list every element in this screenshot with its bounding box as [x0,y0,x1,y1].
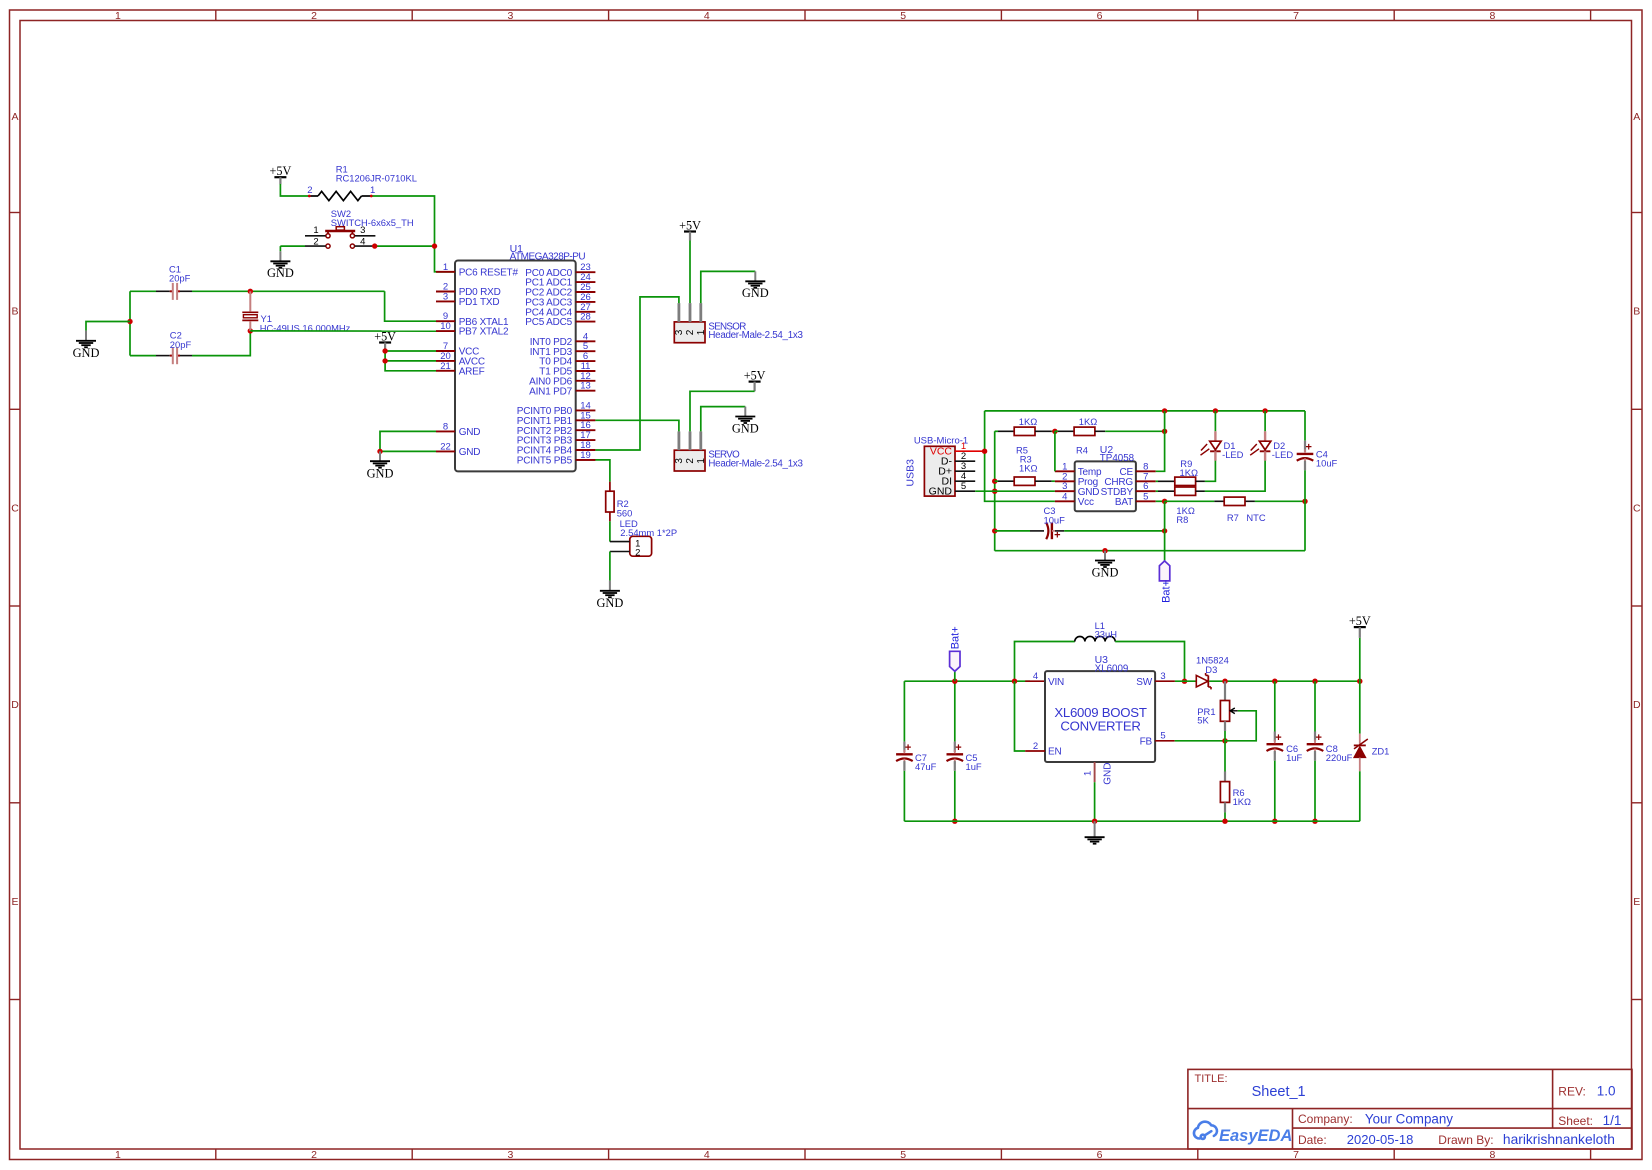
svg-text:USB3: USB3 [905,459,917,487]
svg-text:5K: 5K [1197,715,1209,726]
svg-text:5: 5 [961,481,966,492]
svg-text:10: 10 [440,321,451,332]
svg-text:VIN: VIN [1048,677,1064,688]
svg-text:AIN1 PD7: AIN1 PD7 [529,386,573,397]
svg-text:+5V: +5V [1349,614,1371,628]
svg-text:5: 5 [1143,491,1148,502]
svg-text:PB7 XTAL2: PB7 XTAL2 [459,327,509,338]
svg-text:Sheet_1: Sheet_1 [1252,1084,1306,1100]
svg-text:GND: GND [459,427,481,438]
svg-text:EasyEDA: EasyEDA [1219,1127,1292,1145]
svg-text:PC5 ADC5: PC5 ADC5 [525,317,572,328]
svg-text:2: 2 [685,458,696,464]
svg-text:47uF: 47uF [915,761,937,772]
svg-text:1KΩ: 1KΩ [1079,416,1097,427]
svg-text:B: B [1633,306,1640,318]
svg-text:Company:: Company: [1298,1112,1353,1126]
svg-text:1: 1 [1083,771,1094,776]
svg-text:4: 4 [1062,491,1067,502]
svg-text:A: A [1633,111,1640,123]
svg-text:R7: R7 [1227,512,1239,523]
svg-text:21: 21 [440,361,451,372]
svg-text:A: A [11,111,18,123]
svg-text:1: 1 [696,329,707,335]
svg-text:1KΩ: 1KΩ [1019,416,1037,427]
svg-text:3: 3 [360,225,365,236]
svg-text:3: 3 [507,10,513,22]
svg-text:4: 4 [360,236,365,247]
svg-text:NTC: NTC [1246,512,1265,523]
svg-text:2020-05-18: 2020-05-18 [1347,1132,1414,1147]
svg-text:RC1206JR-0710KL: RC1206JR-0710KL [336,173,417,184]
svg-text:4: 4 [1033,671,1038,682]
svg-text:3: 3 [674,329,685,335]
svg-text:2: 2 [1033,741,1038,752]
svg-text:3: 3 [1160,671,1165,682]
svg-text:R8: R8 [1176,514,1188,525]
svg-text:harikrishnankeloth: harikrishnankeloth [1503,1132,1615,1147]
svg-text:2: 2 [635,548,640,559]
svg-text:22: 22 [440,441,451,452]
svg-text:D: D [1633,699,1641,711]
svg-text:2: 2 [313,236,318,247]
svg-text:Drawn By:: Drawn By: [1438,1133,1493,1147]
svg-text:1.0: 1.0 [1597,1084,1616,1099]
svg-text:3: 3 [443,291,448,302]
svg-text:+: + [1275,732,1281,744]
svg-text:GND: GND [596,596,623,610]
svg-text:-LED: -LED [1222,449,1244,460]
svg-text:1KΩ: 1KΩ [1019,463,1037,474]
svg-text:Vcc: Vcc [1078,497,1094,508]
svg-text:GND: GND [267,266,294,280]
svg-text:GND: GND [367,466,394,480]
svg-text:GND: GND [73,346,100,360]
svg-text:GND: GND [742,286,769,300]
svg-text:D3: D3 [1205,664,1217,675]
svg-text:20pF: 20pF [169,273,191,284]
svg-text:4: 4 [704,1149,710,1161]
svg-text:2: 2 [685,329,696,335]
svg-text:ATMEGA328P-PU: ATMEGA328P-PU [510,252,586,263]
svg-text:E: E [11,896,18,908]
svg-text:TITLE:: TITLE: [1195,1073,1228,1085]
svg-text:3: 3 [674,458,685,464]
svg-text:10uF: 10uF [1316,458,1338,469]
svg-text:AREF: AREF [459,366,485,377]
svg-text:REV:: REV: [1558,1085,1586,1099]
svg-text:6: 6 [1097,10,1103,22]
svg-text:1KΩ: 1KΩ [1180,467,1198,478]
svg-text:2: 2 [311,10,317,22]
svg-text:2: 2 [307,185,312,196]
svg-text:1uF: 1uF [966,761,982,772]
svg-text:5: 5 [1160,731,1165,742]
svg-text:10uF: 10uF [1044,514,1066,525]
svg-text:D: D [11,699,19,711]
svg-text:Bat+: Bat+ [1160,580,1172,603]
svg-text:33uH: 33uH [1095,629,1117,640]
svg-text:1KΩ: 1KΩ [1233,796,1251,807]
svg-text:+: + [1315,732,1321,744]
svg-text:4: 4 [704,10,710,22]
svg-text:5: 5 [900,10,906,22]
svg-text:XL6009: XL6009 [1095,664,1129,675]
svg-text:220uF: 220uF [1326,752,1353,763]
svg-text:E: E [1633,896,1640,908]
svg-text:GND: GND [1092,566,1119,580]
svg-text:R4: R4 [1076,445,1088,456]
svg-text:GND: GND [459,447,481,458]
svg-text:SW: SW [1136,677,1152,688]
svg-text:BAT: BAT [1115,497,1133,508]
svg-text:Header-Male-2.54_1x3: Header-Male-2.54_1x3 [708,330,803,341]
svg-text:1: 1 [115,1149,121,1161]
svg-text:20pF: 20pF [170,339,192,350]
svg-text:8: 8 [1489,1149,1495,1161]
svg-text:-LED: -LED [1272,449,1294,460]
svg-text:28: 28 [580,312,591,323]
svg-text:2.54mm 1*2P: 2.54mm 1*2P [620,527,677,538]
svg-text:TP4058: TP4058 [1100,453,1135,464]
svg-text:+: + [955,742,961,754]
svg-text:1/1: 1/1 [1603,1113,1622,1128]
svg-text:1: 1 [696,458,707,464]
svg-text:GND: GND [1103,763,1114,785]
svg-text:6: 6 [1097,1149,1103,1161]
svg-text:PCINT5 PB5: PCINT5 PB5 [517,456,573,467]
svg-text:560: 560 [617,507,633,518]
svg-text:B: B [11,306,18,318]
svg-text:+5V: +5V [270,164,292,178]
svg-text:2: 2 [311,1149,317,1161]
svg-text:+5V: +5V [744,368,766,382]
svg-text:FB: FB [1140,736,1153,747]
svg-text:Header-Male-2.54_1x3: Header-Male-2.54_1x3 [708,459,803,470]
svg-text:C: C [11,502,19,514]
svg-text:Your Company: Your Company [1365,1111,1453,1126]
svg-text:7: 7 [1293,1149,1299,1161]
svg-text:+: + [905,742,911,754]
svg-text:PC6 RESET#: PC6 RESET# [459,267,519,278]
svg-text:ZD1: ZD1 [1372,746,1390,757]
svg-text:13: 13 [580,381,591,392]
svg-text:5: 5 [900,1149,906,1161]
svg-text:1uF: 1uF [1286,752,1302,763]
svg-text:CONVERTER: CONVERTER [1060,719,1140,734]
svg-text:8: 8 [1489,10,1495,22]
svg-text:GND: GND [732,421,759,435]
svg-text:PD1 TXD: PD1 TXD [459,297,500,308]
svg-text:+5V: +5V [374,329,396,343]
svg-text:1: 1 [115,10,121,22]
svg-text:8: 8 [443,421,448,432]
svg-text:Date:: Date: [1298,1133,1327,1147]
svg-text:Bat+: Bat+ [950,626,962,649]
svg-text:1: 1 [370,185,375,196]
svg-text:Sheet:: Sheet: [1558,1114,1593,1128]
svg-text:+: + [1305,442,1311,454]
svg-text:GND: GND [929,486,953,498]
svg-text:+5V: +5V [679,218,701,232]
svg-text:EN: EN [1048,747,1062,758]
svg-text:C: C [1633,502,1641,514]
svg-text:3: 3 [507,1149,513,1161]
svg-text:1: 1 [313,225,318,236]
svg-text:7: 7 [1293,10,1299,22]
